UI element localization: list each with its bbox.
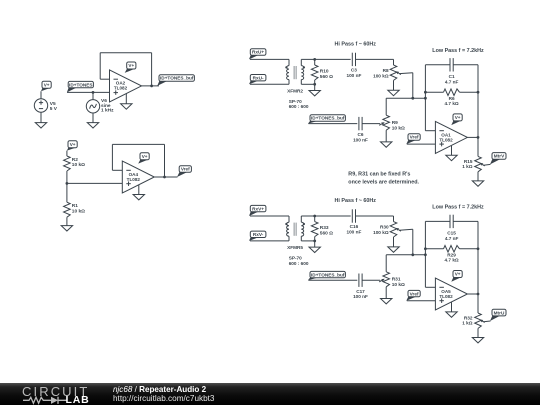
svg-text:1 kΩ: 1 kΩ [462,321,473,326]
svg-text:5 V: 5 V [50,106,58,112]
svg-text:V+: V+ [128,63,134,68]
svg-text:10 kΩ: 10 kΩ [392,125,405,131]
svg-text:RxU+: RxU+ [252,50,264,55]
svg-text:100 nF: 100 nF [353,294,368,299]
svg-text:ID+TONES_buf: ID+TONES_buf [160,76,194,81]
svg-text:RxU-: RxU- [253,75,264,80]
svg-text:560 Ω: 560 Ω [320,230,333,236]
svg-text:100 nF: 100 nF [346,229,361,234]
svg-text:Hi Pass f ~ 60Hz: Hi Pass f ~ 60Hz [335,198,377,204]
svg-text:560 Ω: 560 Ω [320,74,333,80]
svg-text:MtrV: MtrV [494,154,505,159]
svg-text:100 nF: 100 nF [346,73,361,78]
svg-text:1 kΩ: 1 kΩ [462,164,473,169]
svg-text:Hi Pass f ~ 60Hz: Hi Pass f ~ 60Hz [335,41,377,47]
svg-text:ID+TONES_buf: ID+TONES_buf [311,116,345,121]
svg-text:R1: R1 [72,203,78,209]
svg-text:4.7 kΩ: 4.7 kΩ [445,101,459,106]
svg-text:100 kΩ: 100 kΩ [373,230,389,235]
svg-text:V+: V+ [70,142,76,147]
svg-text:V+: V+ [455,272,461,277]
svg-text:XFMR5: XFMR5 [287,245,303,250]
svg-text:100 kΩ: 100 kΩ [373,73,389,78]
svg-text:once levels are determined.: once levels are determined. [348,180,419,186]
svg-text:Low Pass f = 7.2kHz: Low Pass f = 7.2kHz [432,48,484,54]
svg-text:V+: V+ [142,154,148,159]
svg-text:600 : 600: 600 : 600 [289,261,309,266]
svg-text:XFMR2: XFMR2 [287,88,303,93]
svg-text:1 kHz: 1 kHz [101,108,114,114]
svg-text:R9: R9 [392,120,398,126]
svg-text:V+: V+ [44,82,50,87]
svg-text:10 kΩ: 10 kΩ [72,208,85,214]
svg-text:Low Pass f = 7.2kHz: Low Pass f = 7.2kHz [432,205,484,211]
svg-text:10 kΩ: 10 kΩ [392,282,405,288]
svg-text:R2: R2 [72,157,78,163]
svg-text:TL082: TL082 [439,137,453,142]
svg-text:R10: R10 [320,69,329,75]
svg-text:TL082: TL082 [439,294,453,299]
svg-text:4.7 nF: 4.7 nF [445,79,459,84]
svg-text:4.7 nF: 4.7 nF [445,236,459,241]
svg-text:TL082: TL082 [127,177,141,182]
svg-text:R9, R31 can be fixed R's: R9, R31 can be fixed R's [348,171,410,177]
svg-text:RxV-: RxV- [253,232,264,237]
svg-text:RxV+: RxV+ [252,206,264,211]
svg-text:10 kΩ: 10 kΩ [72,162,85,168]
svg-text:R33: R33 [320,225,329,231]
svg-text:100 nF: 100 nF [353,137,368,142]
svg-text:600 : 600: 600 : 600 [289,104,309,109]
svg-text:R31: R31 [392,277,401,283]
svg-text:TL082: TL082 [114,86,128,91]
svg-text:ID+TONES_buf: ID+TONES_buf [311,272,345,277]
svg-text:V+: V+ [455,115,461,120]
svg-text:Vref: Vref [410,135,419,140]
svg-text:ID+TONES: ID+TONES [69,82,93,87]
svg-text:MtrU: MtrU [494,310,505,315]
svg-text:Vref: Vref [410,291,419,296]
svg-text:4.7 kΩ: 4.7 kΩ [445,258,459,263]
svg-text:Vref: Vref [181,167,190,172]
